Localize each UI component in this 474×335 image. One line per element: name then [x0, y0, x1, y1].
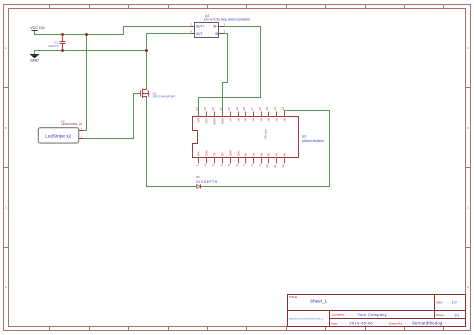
capacitor C1 — [48, 35, 65, 51]
wire U4 IN- to U3 GND — [223, 34, 228, 112]
U3 top pin numbers — [195, 107, 285, 111]
wire MOSFET source to diode anode — [147, 98, 197, 187]
svg-text:D1: D1 — [275, 117, 279, 121]
LED strip connector U2 — [38, 119, 83, 143]
U3 bottom pin names — [197, 150, 287, 157]
diode D1 DIODEPTH — [196, 175, 217, 189]
wire U4 OUT- to MOSFET drain — [147, 34, 191, 89]
junction dot — [61, 33, 64, 36]
svg-text:RX: RX — [221, 152, 225, 156]
svg-text:bernardthedog: bernardthedog — [413, 321, 443, 326]
svg-text:OUT+: OUT+ — [196, 25, 205, 29]
junction dot — [61, 49, 64, 52]
svg-text:A3: A3 — [260, 152, 264, 156]
svg-text:photon electron: photon electron — [302, 139, 324, 143]
svg-text:A0: A0 — [283, 152, 287, 156]
svg-text:16: 16 — [258, 107, 262, 111]
svg-text:IRFZ44NPBF: IRFZ44NPBF — [153, 95, 176, 99]
wire LedStripe pin2 to MOSFET gate — [84, 94, 141, 139]
svg-text:Your Company: Your Company — [358, 312, 387, 317]
svg-text:D5: D5 — [244, 117, 248, 121]
svg-text:D6: D6 — [237, 117, 241, 121]
svg-text:2019-05-06: 2019-05-06 — [349, 321, 373, 326]
svg-text:D: D — [5, 286, 7, 289]
svg-text:Date:: Date: — [331, 321, 338, 325]
svg-text:21: 21 — [219, 107, 223, 111]
title block — [288, 295, 466, 327]
transistor Q1 IRFZ44NPBF — [141, 88, 176, 99]
svg-text:12v to 5.3v step down converte: 12v to 5.3v step down converter — [204, 18, 252, 22]
svg-text:GND: GND — [221, 118, 225, 124]
svg-text:DIODEPTH: DIODEPTH — [196, 180, 217, 184]
power flag VCC 12v — [30, 26, 45, 30]
svg-text:easyeda.com/editor/schematic_1: easyeda.com/editor/schematic_1 — [289, 317, 325, 320]
svg-text:DAC: DAC — [237, 150, 241, 156]
svg-text:GND: GND — [30, 57, 39, 62]
step-down converter U4 — [190, 14, 251, 38]
wire GND rail — [35, 51, 147, 55]
svg-text:TX: TX — [213, 153, 217, 157]
svg-text:17: 17 — [250, 107, 254, 111]
svg-text:D3: D3 — [260, 117, 264, 121]
wire diode cathode to U3 D0 — [201, 111, 330, 187]
svg-text:OUT: OUT — [196, 32, 203, 36]
svg-text:LEDSTRIPE_x2: LEDSTRIPE_x2 — [61, 122, 82, 126]
svg-text:19: 19 — [235, 107, 239, 111]
svg-text:D: D — [467, 286, 469, 289]
svg-text:A2: A2 — [267, 152, 271, 156]
svg-text:TITLE:: TITLE: — [289, 295, 298, 299]
svg-text:WKP: WKP — [229, 150, 233, 157]
ground GND — [30, 55, 39, 63]
svg-text:14: 14 — [273, 107, 277, 111]
svg-text:A1: A1 — [275, 152, 279, 156]
junction dot — [85, 33, 88, 36]
frame row labels — [5, 47, 469, 289]
svg-text:C: C — [5, 207, 7, 210]
U3 bottom pin numbers — [195, 164, 285, 168]
svg-text:10: 10 — [265, 164, 269, 168]
svg-text:IN+: IN+ — [213, 25, 218, 29]
svg-text:RST: RST — [205, 118, 209, 124]
svg-text:100nF: 100nF — [48, 44, 59, 48]
svg-text:D4: D4 — [252, 117, 256, 121]
svg-text:12: 12 — [281, 164, 285, 168]
svg-text:A4: A4 — [252, 152, 256, 156]
svg-text:Sheet:: Sheet: — [436, 313, 445, 317]
wire VCC branch to LedStripe pin1 — [84, 35, 87, 131]
svg-text:D7: D7 — [229, 117, 233, 121]
svg-text:1/1: 1/1 — [454, 313, 459, 317]
svg-text:D2: D2 — [267, 117, 271, 121]
wire U4 IN+ to U3 3V3 — [199, 27, 261, 112]
svg-text:LedStripe x2: LedStripe x2 — [45, 133, 71, 138]
svg-text:24: 24 — [195, 107, 199, 111]
svg-text:VIN: VIN — [197, 152, 201, 157]
svg-text:3V3: 3V3 — [197, 117, 201, 122]
wire VCC to U4 OUT+ — [35, 27, 191, 35]
svg-text:22: 22 — [211, 107, 215, 111]
svg-text:Drawn By:: Drawn By: — [389, 321, 403, 325]
junction dot — [145, 49, 148, 52]
svg-text:GND: GND — [205, 150, 209, 156]
svg-text:Sheet_1: Sheet_1 — [310, 299, 328, 304]
svg-text:1.0: 1.0 — [452, 301, 457, 305]
svg-text:23: 23 — [203, 107, 207, 111]
svg-text:13: 13 — [281, 107, 285, 111]
svg-text:18: 18 — [242, 107, 246, 111]
microcontroller U3 photon-electron — [193, 107, 325, 168]
svg-text:Company:: Company: — [331, 313, 345, 317]
U3 top pin names — [197, 117, 287, 125]
svg-text:Photon: Photon — [263, 129, 267, 139]
svg-text:D1: D1 — [196, 175, 200, 179]
svg-text:11: 11 — [273, 164, 277, 167]
svg-text:A5: A5 — [244, 152, 248, 156]
svg-text:C: C — [467, 207, 469, 210]
svg-text:VCC 12v: VCC 12v — [30, 26, 45, 30]
svg-text:D0: D0 — [283, 117, 287, 121]
svg-text:15: 15 — [265, 107, 269, 111]
svg-text:REV: REV — [436, 300, 442, 304]
svg-text:VBAT: VBAT — [213, 118, 217, 125]
svg-text:20: 20 — [227, 107, 231, 111]
